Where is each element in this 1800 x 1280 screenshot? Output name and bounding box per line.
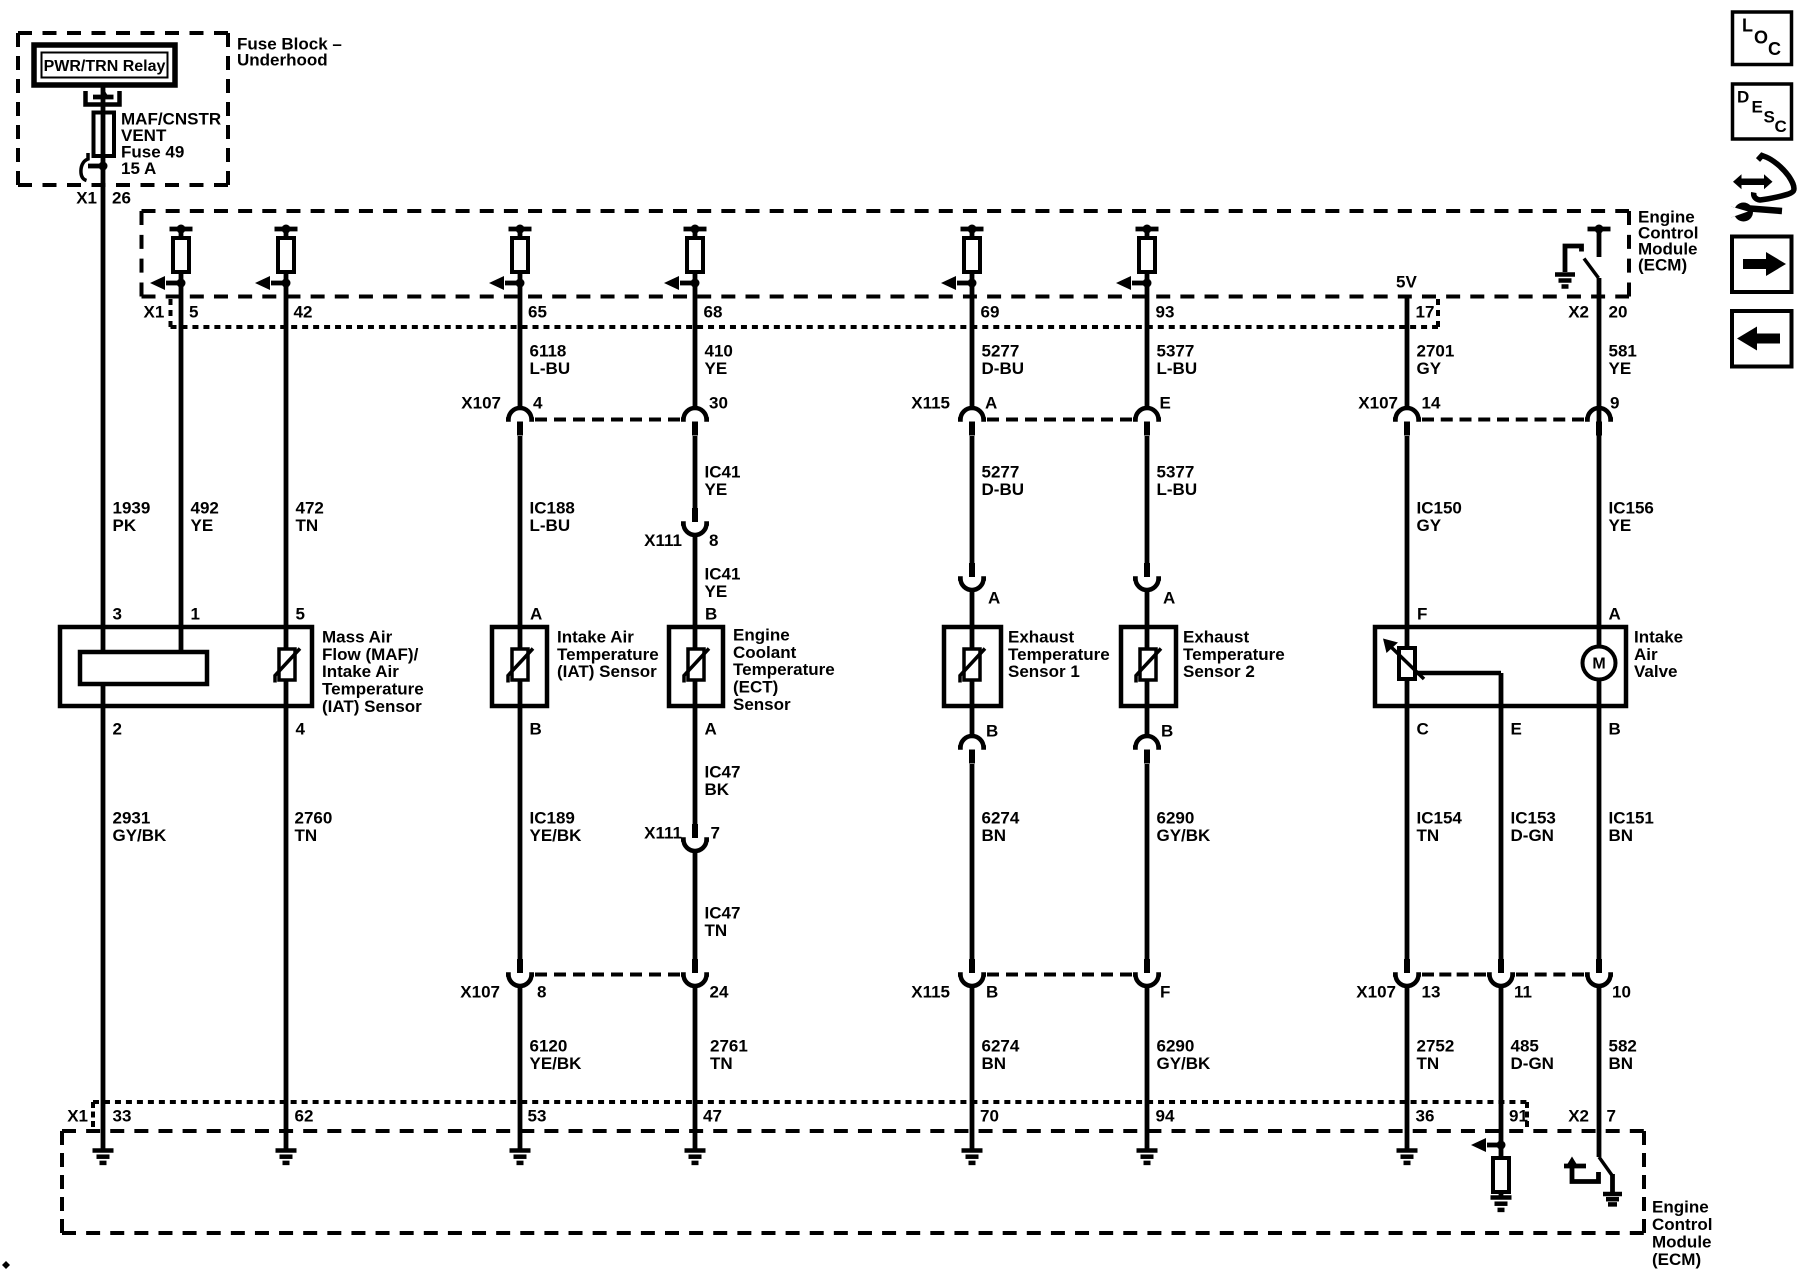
svg-text:5: 5 bbox=[296, 604, 305, 623]
svg-text:93: 93 bbox=[1156, 302, 1175, 321]
svg-text:L: L bbox=[1742, 16, 1753, 36]
svg-text:X1: X1 bbox=[144, 302, 165, 321]
svg-text:(ECM): (ECM) bbox=[1638, 255, 1687, 274]
svg-text:IC153: IC153 bbox=[1511, 808, 1556, 827]
svg-text:70: 70 bbox=[980, 1106, 999, 1125]
svg-text:8: 8 bbox=[709, 531, 718, 550]
svg-text:Engine: Engine bbox=[1652, 1197, 1709, 1216]
svg-text:B: B bbox=[986, 721, 998, 740]
svg-text:D-GN: D-GN bbox=[1511, 826, 1554, 845]
svg-text:Sensor 1: Sensor 1 bbox=[1008, 662, 1080, 681]
svg-text:X2: X2 bbox=[1568, 302, 1589, 321]
svg-text:Temperature: Temperature bbox=[557, 645, 659, 664]
svg-text:E: E bbox=[1511, 719, 1522, 738]
svg-text:A: A bbox=[1163, 588, 1175, 607]
svg-text:1939: 1939 bbox=[113, 498, 151, 517]
svg-text:492: 492 bbox=[191, 498, 219, 517]
svg-text:YE/BK: YE/BK bbox=[530, 826, 583, 845]
svg-text:TN: TN bbox=[1417, 826, 1440, 845]
svg-text:BK: BK bbox=[705, 780, 730, 799]
svg-text:Intake Air: Intake Air bbox=[557, 627, 634, 646]
svg-text:472: 472 bbox=[296, 498, 324, 517]
svg-text:GY/BK: GY/BK bbox=[1157, 1054, 1212, 1073]
svg-text:BN: BN bbox=[982, 826, 1007, 845]
svg-text:69: 69 bbox=[981, 302, 1000, 321]
svg-text:7: 7 bbox=[711, 823, 720, 842]
svg-text:53: 53 bbox=[528, 1106, 547, 1125]
svg-text:Underhood: Underhood bbox=[237, 50, 328, 69]
svg-text:X1: X1 bbox=[67, 1106, 88, 1125]
svg-text:D-BU: D-BU bbox=[982, 359, 1025, 378]
svg-text:Valve: Valve bbox=[1634, 662, 1678, 681]
svg-text:L-BU: L-BU bbox=[1157, 359, 1198, 378]
svg-text:X107: X107 bbox=[461, 393, 501, 412]
svg-text:9: 9 bbox=[1610, 393, 1619, 412]
svg-text:65: 65 bbox=[528, 302, 547, 321]
svg-text:C: C bbox=[1775, 117, 1787, 136]
svg-text:YE: YE bbox=[705, 582, 728, 601]
svg-text:Temperature: Temperature bbox=[733, 660, 835, 679]
svg-text:D-GN: D-GN bbox=[1511, 1054, 1554, 1073]
svg-text:E: E bbox=[1752, 97, 1763, 116]
svg-text:X115: X115 bbox=[911, 982, 950, 1001]
svg-text:20: 20 bbox=[1609, 302, 1628, 321]
svg-text:Sensor 2: Sensor 2 bbox=[1183, 662, 1255, 681]
svg-text:A: A bbox=[530, 604, 542, 623]
svg-text:YE/BK: YE/BK bbox=[530, 1054, 583, 1073]
svg-text:42: 42 bbox=[294, 302, 313, 321]
svg-text:17: 17 bbox=[1416, 302, 1435, 321]
svg-text:YE: YE bbox=[705, 359, 728, 378]
svg-text:E: E bbox=[1160, 393, 1171, 412]
svg-text:Sensor: Sensor bbox=[733, 695, 791, 714]
svg-text:B: B bbox=[1609, 719, 1621, 738]
svg-text:IC41: IC41 bbox=[705, 564, 741, 583]
svg-text:8: 8 bbox=[537, 982, 546, 1001]
svg-text:91: 91 bbox=[1509, 1106, 1528, 1125]
svg-text:X107: X107 bbox=[460, 982, 500, 1001]
svg-text:YE: YE bbox=[191, 516, 214, 535]
svg-text:2: 2 bbox=[113, 719, 122, 738]
svg-text:X115: X115 bbox=[911, 393, 950, 412]
svg-text:BN: BN bbox=[1609, 826, 1634, 845]
svg-text:X111: X111 bbox=[644, 823, 682, 842]
svg-text:L-BU: L-BU bbox=[530, 359, 571, 378]
svg-text:13: 13 bbox=[1422, 982, 1441, 1001]
svg-text:Temperature: Temperature bbox=[1008, 645, 1110, 664]
svg-text:A: A bbox=[985, 393, 997, 412]
svg-text:Intake: Intake bbox=[1634, 627, 1683, 646]
svg-text:X107: X107 bbox=[1358, 393, 1398, 412]
svg-text:Temperature: Temperature bbox=[1183, 645, 1285, 664]
svg-text:X2: X2 bbox=[1568, 1106, 1589, 1125]
svg-text:(IAT) Sensor: (IAT) Sensor bbox=[557, 662, 657, 681]
svg-text:TN: TN bbox=[296, 516, 319, 535]
svg-text:GY/BK: GY/BK bbox=[1157, 826, 1212, 845]
svg-text:Temperature: Temperature bbox=[322, 680, 424, 699]
svg-text:Intake Air: Intake Air bbox=[322, 662, 399, 681]
svg-text:24: 24 bbox=[710, 982, 729, 1001]
svg-text:30: 30 bbox=[709, 393, 728, 412]
svg-text:14: 14 bbox=[1422, 393, 1441, 412]
svg-text:2931: 2931 bbox=[113, 808, 151, 827]
svg-text:2760: 2760 bbox=[295, 808, 333, 827]
svg-text:IC189: IC189 bbox=[530, 808, 575, 827]
svg-text:Flow (MAF)/: Flow (MAF)/ bbox=[322, 645, 419, 664]
svg-text:D: D bbox=[1737, 87, 1749, 106]
svg-text:BN: BN bbox=[982, 1054, 1007, 1073]
svg-text:33: 33 bbox=[113, 1106, 132, 1125]
svg-text:IC151: IC151 bbox=[1609, 808, 1654, 827]
svg-text:A: A bbox=[705, 719, 717, 738]
svg-text:1: 1 bbox=[191, 604, 200, 623]
svg-text:Coolant: Coolant bbox=[733, 643, 797, 662]
svg-text:(IAT) Sensor: (IAT) Sensor bbox=[322, 697, 422, 716]
svg-text:Exhaust: Exhaust bbox=[1183, 627, 1249, 646]
svg-text:4: 4 bbox=[533, 393, 543, 412]
svg-text:S: S bbox=[1764, 107, 1775, 126]
svg-text:2752: 2752 bbox=[1417, 1036, 1455, 1055]
svg-text:36: 36 bbox=[1416, 1106, 1435, 1125]
svg-text:L-BU: L-BU bbox=[1157, 480, 1198, 499]
svg-text:Control: Control bbox=[1652, 1215, 1712, 1234]
svg-text:410: 410 bbox=[705, 341, 733, 360]
svg-text:10: 10 bbox=[1612, 982, 1631, 1001]
svg-text:M: M bbox=[1592, 656, 1605, 673]
svg-text:11: 11 bbox=[1514, 982, 1532, 1001]
svg-text:IC188: IC188 bbox=[530, 498, 575, 517]
svg-text:5V: 5V bbox=[1396, 272, 1417, 291]
svg-text:GY/BK: GY/BK bbox=[113, 826, 168, 845]
svg-text:YE: YE bbox=[705, 480, 728, 499]
svg-text:(ECM): (ECM) bbox=[1652, 1250, 1701, 1269]
svg-text:6120: 6120 bbox=[530, 1036, 568, 1055]
svg-text:6290: 6290 bbox=[1157, 808, 1195, 827]
svg-text:2701: 2701 bbox=[1417, 341, 1455, 360]
svg-text:A: A bbox=[1609, 604, 1621, 623]
svg-text:4: 4 bbox=[296, 719, 306, 738]
svg-text:F: F bbox=[1417, 604, 1427, 623]
svg-text:F: F bbox=[1160, 982, 1170, 1001]
svg-text:Engine: Engine bbox=[733, 625, 790, 644]
svg-text:YE: YE bbox=[1609, 359, 1632, 378]
svg-text:L-BU: L-BU bbox=[530, 516, 571, 535]
svg-text:IC150: IC150 bbox=[1417, 498, 1462, 517]
svg-text:X107: X107 bbox=[1356, 982, 1396, 1001]
svg-text:485: 485 bbox=[1511, 1036, 1539, 1055]
svg-text:PK: PK bbox=[113, 516, 137, 535]
svg-text:TN: TN bbox=[710, 1054, 733, 1073]
svg-text:6274: 6274 bbox=[982, 1036, 1020, 1055]
svg-text:C: C bbox=[1417, 719, 1429, 738]
svg-text:B: B bbox=[705, 604, 717, 623]
svg-text:Exhaust: Exhaust bbox=[1008, 627, 1074, 646]
svg-text:TN: TN bbox=[1417, 1054, 1440, 1073]
svg-text:B: B bbox=[530, 719, 542, 738]
svg-text:6290: 6290 bbox=[1157, 1036, 1195, 1055]
svg-text:IC156: IC156 bbox=[1609, 498, 1654, 517]
svg-text:IC154: IC154 bbox=[1417, 808, 1463, 827]
svg-text:2761: 2761 bbox=[710, 1036, 748, 1055]
svg-text:PWR/TRN Relay: PWR/TRN Relay bbox=[44, 58, 166, 75]
svg-text:O: O bbox=[1754, 28, 1768, 48]
svg-text:GY: GY bbox=[1417, 359, 1442, 378]
svg-text:26: 26 bbox=[112, 188, 131, 207]
svg-text:5377: 5377 bbox=[1157, 462, 1195, 481]
svg-text:47: 47 bbox=[703, 1106, 722, 1125]
svg-text:5277: 5277 bbox=[982, 341, 1020, 360]
svg-text:A: A bbox=[988, 588, 1000, 607]
svg-text:581: 581 bbox=[1609, 341, 1637, 360]
svg-text:B: B bbox=[1161, 721, 1173, 740]
svg-text:5377: 5377 bbox=[1157, 341, 1195, 360]
svg-text:68: 68 bbox=[704, 302, 723, 321]
svg-text:TN: TN bbox=[295, 826, 318, 845]
svg-text:IC41: IC41 bbox=[705, 462, 741, 481]
svg-text:3: 3 bbox=[113, 604, 122, 623]
svg-text:582: 582 bbox=[1609, 1036, 1637, 1055]
svg-text:X111: X111 bbox=[644, 531, 682, 550]
svg-text:IC47: IC47 bbox=[705, 903, 741, 922]
svg-text:6274: 6274 bbox=[982, 808, 1020, 827]
svg-text:B: B bbox=[986, 982, 998, 1001]
svg-text:TN: TN bbox=[705, 921, 728, 940]
svg-text:7: 7 bbox=[1607, 1106, 1616, 1125]
svg-text:94: 94 bbox=[1156, 1106, 1175, 1125]
svg-text:IC47: IC47 bbox=[705, 762, 741, 781]
svg-text:15 A: 15 A bbox=[121, 159, 156, 178]
svg-text:BN: BN bbox=[1609, 1054, 1634, 1073]
svg-text:(ECT): (ECT) bbox=[733, 678, 778, 697]
svg-text:C: C bbox=[1768, 39, 1781, 59]
svg-text:Module: Module bbox=[1652, 1232, 1712, 1251]
svg-text:5277: 5277 bbox=[982, 462, 1020, 481]
svg-text:YE: YE bbox=[1609, 516, 1632, 535]
svg-text:X1: X1 bbox=[76, 188, 97, 207]
svg-text:6118: 6118 bbox=[530, 341, 567, 360]
svg-text:5: 5 bbox=[189, 302, 198, 321]
svg-text:D-BU: D-BU bbox=[982, 480, 1025, 499]
svg-text:62: 62 bbox=[295, 1106, 314, 1125]
svg-text:Air: Air bbox=[1634, 645, 1658, 664]
svg-text:Mass Air: Mass Air bbox=[322, 627, 393, 646]
svg-text:GY: GY bbox=[1417, 516, 1442, 535]
